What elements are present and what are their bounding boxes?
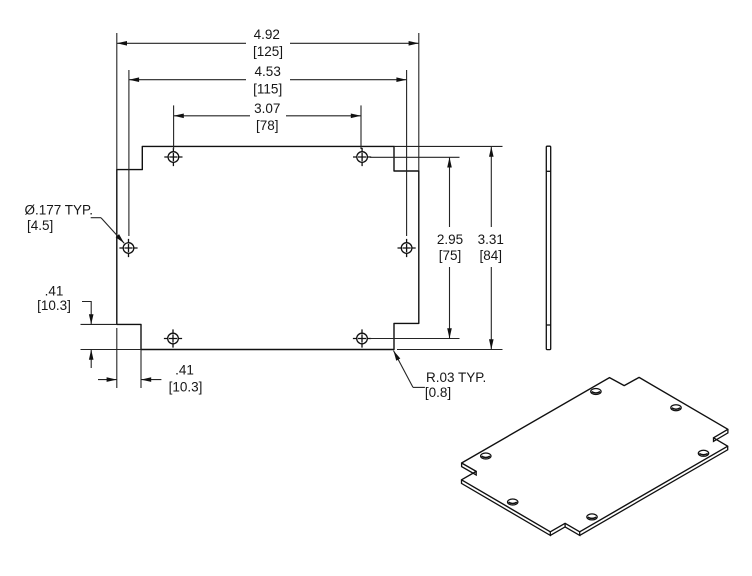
dimension 3.07 [78] xyxy=(174,101,361,149)
isometric hole 2 xyxy=(591,389,601,395)
dimension .41 [10.3] bottom horizontal xyxy=(98,326,202,395)
svg-text:2.95: 2.95 xyxy=(437,232,463,247)
isometric hole 5 xyxy=(587,514,597,520)
isometric plate thickness edges xyxy=(462,429,728,535)
side view plate edge xyxy=(546,146,550,349)
label R.03 TYP with leader xyxy=(394,351,487,400)
hole bottom-left xyxy=(164,329,182,347)
svg-text:3.31: 3.31 xyxy=(478,232,504,247)
svg-text:R.03 TYP.: R.03 TYP. xyxy=(426,370,486,385)
svg-text:4.92: 4.92 xyxy=(254,27,280,42)
svg-text:[10.3]: [10.3] xyxy=(169,380,203,395)
svg-text:[0.8]: [0.8] xyxy=(425,385,451,400)
dimension 3.31 [84] xyxy=(394,146,504,349)
svg-text:[78]: [78] xyxy=(256,118,279,133)
isometric view plate outline xyxy=(462,377,728,531)
dimension 2.95 [75] xyxy=(370,157,463,338)
svg-text:.41: .41 xyxy=(45,283,64,298)
isometric hole 4 xyxy=(671,405,681,411)
isometric hole 6 xyxy=(698,450,708,456)
dimension 4.92 [125] xyxy=(117,27,419,171)
svg-text:[4.5]: [4.5] xyxy=(27,218,53,233)
svg-text:[75]: [75] xyxy=(439,248,462,263)
isometric hole 1 xyxy=(481,453,491,459)
hole bottom-right xyxy=(353,329,371,347)
svg-text:3.07: 3.07 xyxy=(254,101,280,116)
hole top-left xyxy=(164,148,182,166)
hole mid-left xyxy=(119,239,137,257)
svg-text:[10.3]: [10.3] xyxy=(37,298,71,313)
svg-text:[84]: [84] xyxy=(480,248,503,263)
svg-text:[125]: [125] xyxy=(253,44,283,59)
dimension 4.53 [115] xyxy=(129,64,407,236)
svg-text:[115]: [115] xyxy=(253,82,282,97)
label diameter .177 TYP with leader xyxy=(25,202,125,243)
svg-text:.41: .41 xyxy=(175,363,194,378)
isometric hole 3 xyxy=(508,499,518,505)
dimension .41 [10.3] left vertical xyxy=(37,283,141,368)
svg-text:4.53: 4.53 xyxy=(255,64,281,79)
hole mid-right xyxy=(398,239,416,257)
plate top view outline xyxy=(117,146,419,349)
hole top-right xyxy=(353,148,371,166)
svg-text:Ø.177 TYP.: Ø.177 TYP. xyxy=(25,202,94,217)
